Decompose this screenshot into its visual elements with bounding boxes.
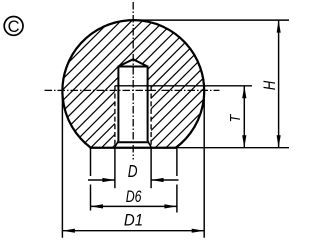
thread major dia left (dashed)	[114, 86, 116, 147]
svg-text:T: T	[227, 113, 244, 122]
bottom extension line	[177, 147, 289, 149]
vertical centerline	[132, 2, 134, 160]
svg-text:D: D	[128, 161, 138, 181]
D6 extension line left	[90, 149, 92, 211]
D extension line left	[114, 148, 116, 189]
cone base line	[118, 66, 149, 68]
H top extension line	[133, 19, 289, 21]
ball flat bottom	[90, 147, 177, 149]
T dimension line + arrows	[242, 86, 246, 148]
svg-text:D1: D1	[124, 211, 143, 230]
hole minor dia right	[147, 67, 149, 142]
hole bottom line	[117, 141, 149, 143]
ball outline	[62, 20, 204, 148]
H dimension line + arrows	[277, 20, 281, 148]
chamfer left	[115, 141, 118, 147]
svg-text:D6: D6	[126, 188, 142, 206]
T top extension line	[115, 85, 252, 87]
D extension line right	[150, 148, 152, 189]
hole minor dia left	[117, 67, 119, 142]
D1 extension line right	[203, 93, 205, 238]
D6 dimension line + arrows	[91, 204, 177, 208]
D6 extension line right	[176, 149, 178, 213]
chamfer right	[148, 141, 151, 147]
drill cone	[118, 59, 147, 66]
D dimension line + arrows	[88, 178, 179, 182]
D1 extension line left	[61, 93, 63, 238]
D1 dimension line + arrows	[62, 229, 204, 233]
svg-text:H: H	[261, 81, 279, 90]
form badge C circle	[4, 17, 23, 36]
svg-text:C: C	[8, 18, 20, 36]
horizontal centerline	[45, 89, 220, 91]
thread major dia right (dashed)	[150, 86, 152, 147]
